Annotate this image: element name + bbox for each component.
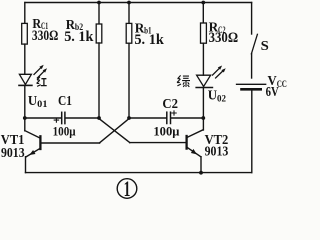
LED1 red bbox=[19, 65, 47, 86]
LED2 green bbox=[196, 66, 226, 88]
transistor VT2 9013 bbox=[187, 130, 204, 157]
wire switch to battery bbox=[251, 54, 253, 78]
wire cross-coupling to VT1 base bbox=[100, 119, 130, 143]
wire RC2 to LED2 bbox=[202, 43, 204, 75]
node VT2 collector / C2 junction bbox=[201, 116, 205, 120]
node C1/Rb2 junction bbox=[97, 116, 101, 120]
wire Rb2 branch top bbox=[98, 3, 100, 25]
wire left branch top bbox=[24, 3, 26, 24]
node C2/Rb1 junction bbox=[127, 116, 131, 120]
wire bottom rail bbox=[26, 172, 252, 174]
wire Rb2 to junction bbox=[98, 43, 100, 118]
label green (lv) character bbox=[177, 75, 190, 87]
label Rb1 bbox=[134, 22, 164, 49]
wire C1 left lead bbox=[25, 117, 61, 119]
node VT2 emitter on rail bbox=[199, 171, 203, 175]
svg-text:100μ: 100μ bbox=[153, 124, 180, 139]
node VT1 collector / C1 junction bbox=[23, 116, 27, 120]
switch S blade bbox=[251, 34, 257, 54]
wire top rail VCC bbox=[25, 2, 252, 4]
svg-text:6V: 6V bbox=[266, 85, 279, 100]
svg-text:100μ: 100μ bbox=[53, 123, 77, 138]
figure number 1 circled bbox=[117, 176, 137, 201]
wire RC2 branch top bbox=[202, 3, 204, 24]
svg-text:1: 1 bbox=[124, 176, 131, 199]
svg-text:9013: 9013 bbox=[1, 146, 25, 161]
wire Rb1 to junction bbox=[128, 43, 130, 118]
svg-text:U: U bbox=[28, 94, 37, 109]
resistor Rb1 bbox=[126, 23, 132, 43]
svg-text:330Ω: 330Ω bbox=[209, 30, 239, 46]
resistor Rb2 bbox=[96, 24, 102, 43]
label U02 bbox=[208, 88, 226, 104]
svg-text:5. 1k: 5. 1k bbox=[134, 32, 164, 48]
label VCC bbox=[268, 74, 287, 90]
node Rb1 top rail bbox=[127, 1, 131, 5]
capacitor C2 bbox=[167, 111, 176, 124]
svg-text:01: 01 bbox=[37, 99, 47, 110]
svg-text:330Ω: 330Ω bbox=[32, 28, 58, 44]
label RC2 bbox=[209, 21, 239, 46]
svg-text:S: S bbox=[261, 38, 269, 53]
wire RC1 to LED1 bbox=[24, 44, 26, 74]
wire VT1 base line bbox=[41, 142, 99, 144]
wire Rb1 branch top bbox=[128, 3, 130, 24]
wire C2 left lead bbox=[129, 117, 166, 119]
node RC2 top rail bbox=[201, 1, 205, 5]
wire VT2 emitter to rail bbox=[200, 157, 202, 173]
wire C2 right lead bbox=[171, 117, 203, 119]
wire LED1 to VT1 collector node bbox=[24, 85, 26, 130]
label U01 bbox=[28, 94, 48, 110]
svg-text:5. 1k: 5. 1k bbox=[64, 29, 94, 45]
wire cross-coupling to VT2 base bbox=[99, 119, 130, 143]
wire VT2 base line bbox=[130, 142, 186, 144]
label red (hong) character bbox=[37, 77, 47, 87]
wire LED2 to VT2 collector node bbox=[202, 88, 204, 131]
node Rb2 top rail bbox=[97, 1, 101, 5]
wire VT1 emitter to rail bbox=[25, 157, 27, 173]
battery VCC 6V bbox=[237, 84, 266, 89]
label RC1 bbox=[32, 17, 58, 44]
wire battery to bottom rail bbox=[251, 91, 253, 173]
transistor VT1 9013 bbox=[25, 131, 41, 157]
resistor RC1 bbox=[22, 23, 28, 44]
svg-text:9013: 9013 bbox=[205, 144, 229, 159]
svg-text:U: U bbox=[208, 88, 217, 103]
label Rb2 bbox=[64, 18, 94, 45]
wire right branch top to switch bbox=[251, 3, 253, 35]
svg-text:02: 02 bbox=[217, 93, 226, 104]
resistor RC2 bbox=[201, 23, 207, 43]
svg-text:C1: C1 bbox=[58, 94, 72, 109]
svg-text:C2: C2 bbox=[162, 97, 178, 112]
capacitor C1 bbox=[54, 112, 65, 123]
wire C1 right lead bbox=[66, 117, 100, 119]
